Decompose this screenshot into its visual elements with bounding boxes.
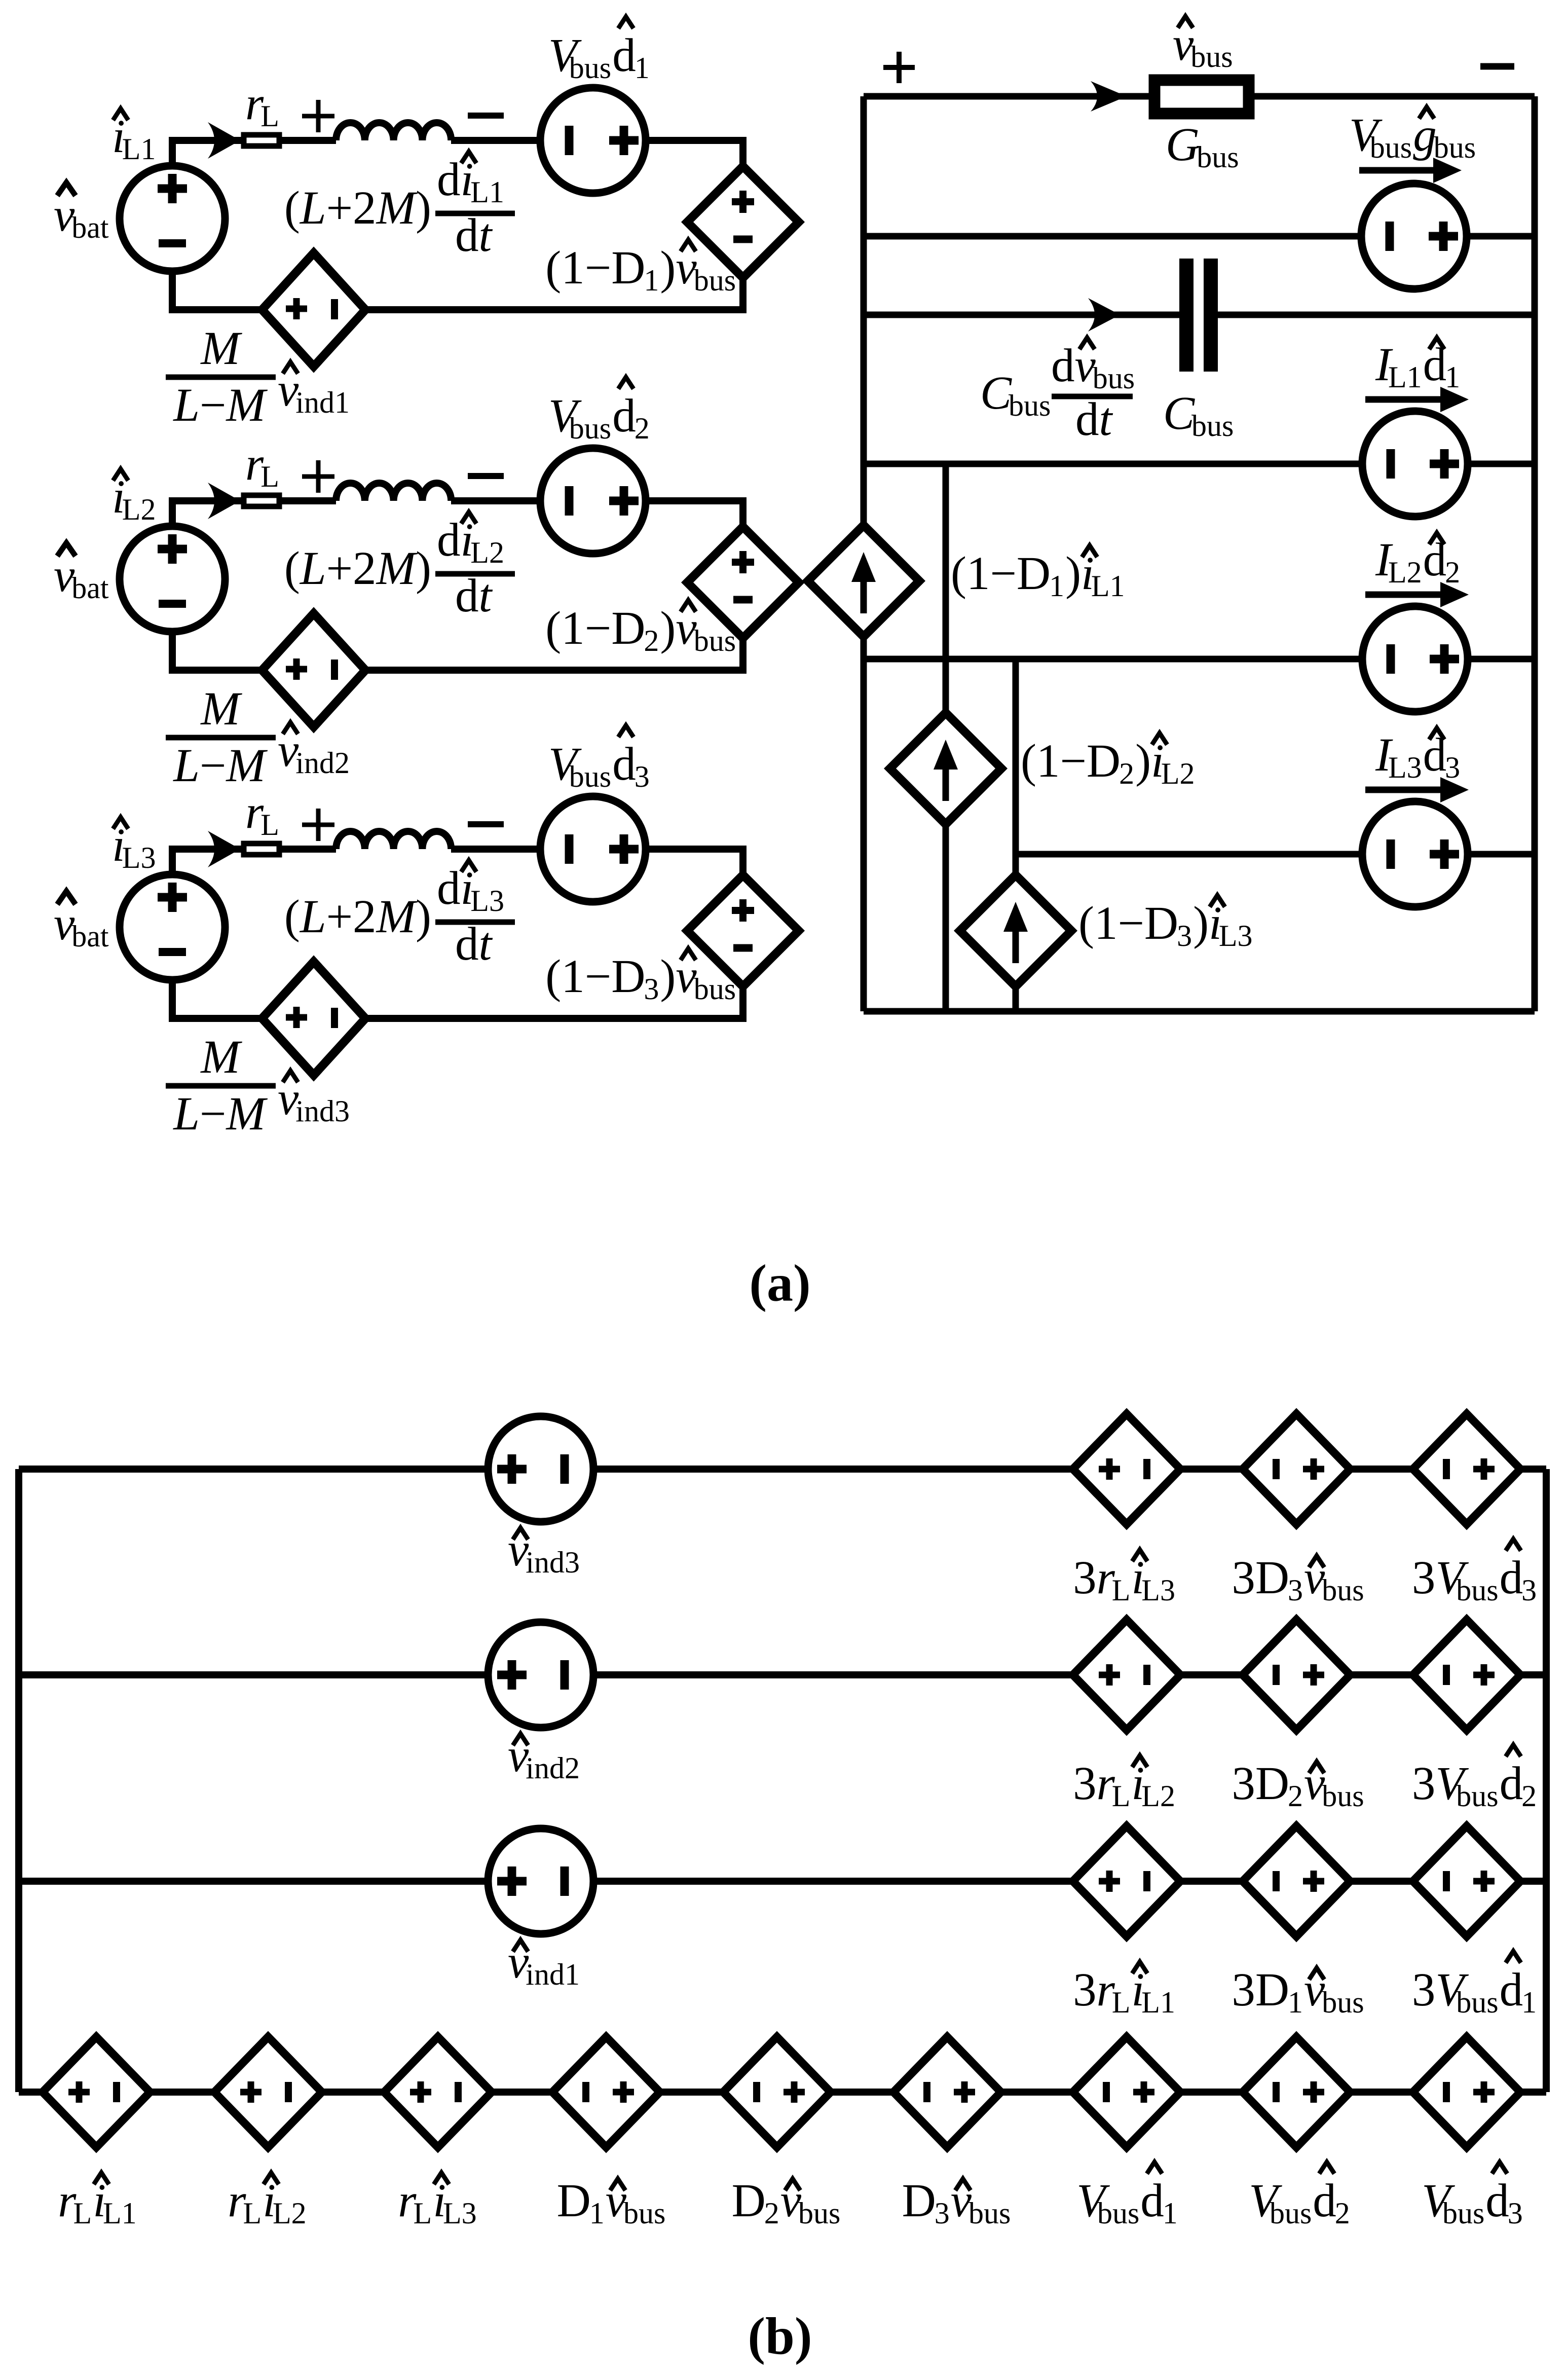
controlled voltage source V_bus*d2 (circle): [540, 448, 646, 554]
fraction bar di/dt (phase 2): [435, 571, 515, 577]
svg-text:): ): [416, 182, 431, 234]
svg-text:1: 1: [635, 51, 650, 85]
controlled source I_L3*d3 (circle): [1362, 801, 1468, 907]
svg-text:d: d: [1051, 340, 1075, 392]
dependent source 3r_L*i_L3 (diamond): [1073, 1414, 1180, 1524]
svg-text:3D: 3D: [1232, 1964, 1289, 2016]
svg-text:): ): [1135, 735, 1151, 787]
svg-text:L: L: [1112, 1573, 1131, 1607]
svg-text:3: 3: [1508, 2196, 1523, 2230]
controlled voltage source V_bus*d1 (circle): [540, 88, 646, 193]
svg-text:d: d: [455, 570, 479, 622]
svg-text:3: 3: [1288, 1573, 1303, 1607]
polarity + of inductor (phase 3): [302, 809, 334, 841]
svg-text:bus: bus: [1456, 1986, 1498, 2019]
svg-text:bus: bus: [1270, 2196, 1312, 2230]
svg-text:ind2: ind2: [295, 746, 350, 780]
voltage source v_bat (phase 2): [120, 526, 225, 632]
voltage source v_bat (phase 3): [120, 874, 225, 980]
svg-text:D: D: [557, 2175, 591, 2227]
wire phase-2 bottom segment: [172, 632, 743, 670]
svg-text:2: 2: [644, 624, 659, 657]
svg-text:(1−D: (1−D: [1021, 735, 1121, 787]
dependent source 3r_L*i_L1 (diamond): [1073, 1826, 1180, 1936]
wire phase-2 top-right segment: [451, 501, 743, 527]
svg-text:M: M: [225, 1088, 268, 1140]
wire part-b bottom row: [19, 2089, 1546, 2096]
svg-text:bus: bus: [1322, 1986, 1364, 2019]
dependent source r_L*i_L3 (diamond, bottom row): [384, 2037, 492, 2147]
svg-text:M: M: [200, 1031, 242, 1083]
svg-text:2: 2: [1521, 1779, 1537, 1813]
svg-text:2: 2: [1445, 556, 1460, 589]
svg-text:M: M: [376, 891, 418, 943]
svg-text:L1: L1: [1388, 360, 1422, 394]
svg-text:d: d: [1485, 2175, 1509, 2227]
svg-text:bat: bat: [71, 211, 109, 244]
voltage source v_bat (phase 1): [120, 166, 225, 271]
svg-text:L: L: [299, 891, 326, 943]
dependent source 3D2*v_bus (diamond): [1243, 1620, 1350, 1730]
svg-text:2: 2: [1119, 757, 1134, 790]
svg-text:d: d: [437, 154, 461, 206]
svg-text:2: 2: [764, 2196, 779, 2230]
resistor G_bus: [1154, 80, 1249, 114]
svg-text:(b): (b): [748, 2307, 812, 2365]
polarity - of inductor (phase 3): [468, 821, 504, 827]
svg-text:d: d: [437, 862, 461, 914]
svg-text:G: G: [1166, 119, 1200, 171]
wire bus row 5: [864, 656, 1535, 663]
svg-text:bus: bus: [1370, 131, 1412, 164]
svg-text:2: 2: [1335, 2196, 1350, 2230]
svg-text:bus: bus: [1456, 1779, 1498, 1813]
svg-text:3: 3: [1073, 1552, 1097, 1604]
dependent source (1-D3)v_bus (diamond): [687, 875, 799, 986]
svg-text:d: d: [612, 390, 636, 442]
svg-text:bus: bus: [1322, 1573, 1364, 1607]
wire phase-3 top-right segment: [451, 849, 743, 875]
svg-text:t: t: [479, 209, 493, 262]
wire phase-3 bottom segment: [172, 980, 743, 1018]
svg-text:d: d: [1075, 393, 1099, 446]
wire bus box top: [864, 93, 1535, 100]
svg-text:L: L: [243, 2196, 262, 2230]
svg-text:L: L: [260, 460, 279, 493]
current source (1-D3)i_L3 (diamond): [960, 875, 1071, 986]
svg-text:t: t: [479, 918, 493, 970]
svg-text:L: L: [172, 740, 200, 792]
current arrow i_L2: [208, 483, 240, 519]
svg-text:L: L: [299, 182, 326, 234]
svg-text:L1: L1: [122, 132, 156, 166]
svg-text:L2: L2: [273, 2196, 307, 2230]
dependent source 3D3*v_bus (diamond): [1243, 1414, 1350, 1524]
svg-text:3: 3: [1412, 1757, 1436, 1810]
svg-text:(1−D: (1−D: [545, 950, 645, 1003]
svg-text:D: D: [732, 2175, 766, 2227]
svg-text:M: M: [376, 182, 418, 234]
svg-text:−: −: [200, 1088, 226, 1140]
current arrow i_L1: [208, 122, 240, 159]
svg-text:): ): [660, 242, 676, 294]
polarity - of inductor (phase 1): [468, 113, 504, 119]
svg-text:1: 1: [1288, 1986, 1303, 2019]
svg-text:L: L: [73, 2196, 92, 2230]
svg-text:bus: bus: [1442, 2196, 1484, 2230]
svg-text:bus: bus: [569, 51, 611, 85]
svg-text:bus: bus: [569, 412, 611, 445]
svg-text:L3: L3: [1388, 751, 1422, 784]
svg-text:d: d: [455, 918, 479, 970]
polarity + of inductor (phase 2): [302, 460, 334, 493]
svg-text:bus: bus: [1456, 1573, 1498, 1607]
svg-text:bus: bus: [694, 972, 736, 1006]
current arrow into G_bus: [1091, 81, 1127, 112]
inductor L (phase 2): [336, 483, 451, 501]
svg-text:bus: bus: [623, 2196, 665, 2230]
wire part-b left wall: [15, 1469, 22, 2092]
svg-text:bus: bus: [968, 2196, 1011, 2230]
dependent source v_ind2 (diamond): [262, 613, 365, 727]
svg-text:d: d: [612, 29, 636, 82]
svg-text:3: 3: [1412, 1964, 1436, 2016]
svg-text:L2: L2: [1161, 757, 1195, 790]
resistor r_L (phase 1): [244, 135, 279, 146]
svg-text:+2: +2: [326, 182, 377, 234]
svg-text:L1: L1: [470, 175, 504, 209]
resistor r_L (phase 3): [244, 844, 279, 855]
svg-text:L2: L2: [1388, 556, 1422, 589]
svg-text:1: 1: [1049, 569, 1064, 603]
svg-text:d: d: [437, 514, 461, 566]
svg-text:L: L: [260, 808, 279, 841]
dependent source r_L*i_L2 (diamond, bottom row): [214, 2037, 322, 2147]
wire phase-2 top-left segment: [172, 501, 336, 526]
svg-text:bus: bus: [1191, 409, 1234, 443]
dependent source 3V_bus*d2 (diamond): [1413, 1620, 1520, 1730]
svg-text:d: d: [1500, 1552, 1523, 1604]
current source (1-D2)i_L2 (diamond): [890, 713, 1001, 824]
svg-text:1: 1: [589, 2196, 605, 2230]
svg-text:3D: 3D: [1232, 1552, 1289, 1604]
fraction bar di/dt (phase 3): [435, 920, 515, 925]
dependent source 3D1*v_bus (diamond): [1243, 1826, 1350, 1936]
svg-text:(1−D: (1−D: [545, 242, 645, 294]
wire part-b row 3: [19, 1878, 1546, 1885]
svg-text:(: (: [284, 542, 300, 595]
svg-text:3: 3: [1073, 1757, 1097, 1810]
svg-text:ind1: ind1: [526, 1958, 580, 1991]
svg-text:L1: L1: [103, 2196, 137, 2230]
svg-text:L2: L2: [122, 493, 156, 526]
svg-text:bus: bus: [1093, 361, 1135, 395]
current arrow i_L3: [208, 831, 240, 867]
svg-text:bus: bus: [1197, 140, 1239, 174]
svg-text:−: −: [200, 740, 226, 792]
wire phase-3 top-left segment: [172, 849, 336, 874]
inductor L (phase 3): [336, 831, 451, 849]
dependent source 3r_L*i_L2 (diamond): [1073, 1620, 1180, 1730]
svg-text:d: d: [1500, 1964, 1523, 2016]
svg-text:L: L: [172, 1088, 200, 1140]
wire part-b row 1: [19, 1466, 1546, 1473]
svg-text:1: 1: [644, 264, 659, 297]
svg-text:C: C: [980, 367, 1012, 419]
dependent source 3V_bus*d1 (diamond): [1413, 1826, 1520, 1936]
dependent source D2*v_bus (diamond, bottom row): [723, 2037, 831, 2147]
svg-text:3: 3: [1177, 919, 1192, 953]
svg-text:bus: bus: [1322, 1779, 1364, 1813]
svg-text:+2: +2: [326, 891, 377, 943]
wire inner vertical branch 1: [943, 464, 949, 1011]
dependent source D1*v_bus (diamond, bottom row): [552, 2037, 660, 2147]
svg-text:L: L: [260, 99, 279, 133]
svg-text:ind1: ind1: [295, 386, 350, 419]
controlled source V_bus*g_bus (circle): [1361, 184, 1467, 289]
dependent source v_ind3 (diamond): [262, 962, 365, 1075]
svg-text:d: d: [612, 738, 636, 790]
svg-text:L2: L2: [1141, 1779, 1175, 1813]
svg-text:ind3: ind3: [295, 1094, 350, 1128]
arrow V_bus*g_bus: [1359, 167, 1437, 174]
svg-text:3: 3: [635, 760, 650, 793]
voltage source v_ind1 (circle): [488, 1828, 593, 1934]
svg-text:(1−D: (1−D: [951, 547, 1051, 600]
wire bus box right wall: [1532, 96, 1538, 1011]
svg-text:3: 3: [1412, 1552, 1436, 1604]
capacitor C_bus plates: [1179, 259, 1194, 372]
arrow I_L2*d2: [1365, 592, 1444, 598]
dependent source 3V_bus*d3 (diamond): [1413, 1414, 1520, 1524]
dependent source V_bus*d1 (diamond, bottom row): [1073, 2037, 1180, 2147]
wire bus box bottom: [864, 1008, 1535, 1015]
svg-text:+2: +2: [326, 542, 377, 595]
svg-text:t: t: [1099, 393, 1113, 446]
wire bus row 3 right of capacitor: [1218, 312, 1535, 318]
label - bus terminal: [1480, 63, 1514, 70]
svg-text:bus: bus: [1190, 40, 1233, 74]
svg-text:L2: L2: [470, 536, 504, 569]
svg-text:d: d: [1500, 1757, 1523, 1810]
wire bus box left wall: [861, 96, 867, 1011]
svg-text:2: 2: [635, 412, 650, 445]
svg-text:ind3: ind3: [526, 1546, 580, 1579]
fraction bar di/dt (phase 1): [435, 211, 515, 216]
svg-text:L1: L1: [1141, 1986, 1175, 2019]
svg-text:3: 3: [1073, 1964, 1097, 2016]
svg-text:M: M: [200, 683, 242, 735]
svg-text:bus: bus: [694, 264, 736, 297]
polarity + of inductor (phase 1): [302, 100, 334, 132]
resistor r_L (phase 2): [244, 495, 279, 506]
polarity - of inductor (phase 2): [468, 473, 504, 479]
current arrow into C_bus: [1088, 298, 1120, 332]
svg-text:C: C: [1163, 387, 1195, 440]
voltage source v_ind3 (circle): [488, 1416, 593, 1522]
dependent source V_bus*d3 (diamond, bottom row): [1413, 2037, 1520, 2147]
dependent source D3*v_bus (diamond, bottom row): [893, 2037, 1001, 2147]
dependent source v_ind1 (diamond): [262, 253, 365, 367]
svg-text:d: d: [455, 209, 479, 262]
svg-text:t: t: [479, 570, 493, 622]
controlled voltage source V_bus*d3 (circle): [540, 796, 646, 902]
wire part-b right wall: [1543, 1469, 1550, 2092]
arrow I_L3*d3: [1365, 787, 1444, 793]
svg-text:(1−D: (1−D: [545, 602, 645, 654]
svg-text:(: (: [284, 891, 300, 943]
wire inner vertical branch 2: [1013, 659, 1019, 1011]
svg-text:L1: L1: [1091, 569, 1125, 603]
dependent source r_L*i_L1 (diamond, bottom row): [43, 2037, 150, 2147]
dependent source (1-D1)v_bus (diamond): [687, 166, 799, 278]
svg-text:ind2: ind2: [526, 1751, 580, 1785]
svg-text:−: −: [200, 379, 226, 431]
svg-text:bus: bus: [1434, 131, 1476, 164]
svg-text:(a): (a): [749, 1254, 810, 1312]
svg-text:1: 1: [1445, 360, 1460, 394]
label + bus terminal: [883, 52, 915, 83]
svg-text:L: L: [299, 542, 326, 595]
svg-text:M: M: [225, 379, 268, 431]
wire phase-1 top-right segment: [451, 140, 743, 166]
wire bus row 4: [864, 461, 1535, 467]
svg-text:3: 3: [935, 2196, 950, 2230]
dependent source (1-D2)v_bus (diamond): [687, 527, 799, 638]
svg-text:bat: bat: [71, 920, 109, 953]
svg-text:(1−D: (1−D: [1078, 897, 1178, 949]
wire phase-1 top-left segment: [172, 140, 336, 165]
svg-text:L3: L3: [122, 841, 156, 874]
svg-text:L: L: [1112, 1986, 1131, 2019]
wire bus row 2: [864, 233, 1535, 240]
dependent source V_bus*d2 (diamond, bottom row): [1243, 2037, 1350, 2147]
svg-text:M: M: [376, 542, 418, 595]
svg-text:M: M: [200, 322, 242, 375]
svg-text:bus: bus: [1097, 2196, 1139, 2230]
svg-text:bus: bus: [694, 624, 736, 657]
svg-text:L3: L3: [1141, 1573, 1175, 1607]
svg-text:1: 1: [1521, 1986, 1537, 2019]
svg-text:): ): [416, 891, 431, 943]
svg-text:(: (: [284, 182, 300, 234]
arrow I_L1*d1: [1365, 396, 1444, 403]
wire phase-1 bottom segment: [172, 271, 743, 310]
svg-text:1: 1: [1163, 2196, 1178, 2230]
svg-text:d: d: [1140, 2175, 1164, 2227]
voltage source v_ind2 (circle): [488, 1622, 593, 1728]
svg-text:3D: 3D: [1232, 1757, 1289, 1810]
svg-text:L: L: [172, 379, 200, 431]
svg-text:): ): [416, 542, 431, 595]
svg-text:bus: bus: [569, 760, 611, 793]
controlled source I_L2*d2 (circle): [1362, 606, 1468, 712]
svg-text:bat: bat: [71, 571, 109, 605]
svg-text:3: 3: [1521, 1573, 1537, 1607]
svg-text:D: D: [902, 2175, 936, 2227]
svg-text:): ): [1193, 897, 1209, 949]
inductor L (phase 1): [336, 123, 451, 140]
svg-text:L: L: [1112, 1779, 1131, 1813]
svg-text:3: 3: [1445, 751, 1460, 784]
svg-text:bus: bus: [1009, 389, 1051, 422]
svg-text:L3: L3: [443, 2196, 477, 2230]
svg-text:M: M: [225, 740, 268, 792]
svg-text:): ): [660, 950, 676, 1003]
svg-text:bus: bus: [798, 2196, 840, 2230]
wire part-b row 2: [19, 1671, 1546, 1678]
controlled source I_L1*d1 (circle): [1362, 411, 1468, 517]
svg-text:): ): [1065, 547, 1081, 600]
svg-text:): ): [660, 602, 676, 654]
svg-text:2: 2: [1288, 1779, 1303, 1813]
current source (1-D1)i_L1 (diamond): [808, 525, 919, 637]
svg-text:L: L: [414, 2196, 432, 2230]
svg-text:3: 3: [644, 972, 659, 1006]
wire bus row 3 left of capacitor: [864, 312, 1179, 318]
svg-text:L3: L3: [1219, 919, 1253, 953]
wire bus row 6: [1016, 851, 1535, 858]
svg-text:L3: L3: [470, 884, 504, 918]
svg-text:d: d: [1313, 2175, 1336, 2227]
